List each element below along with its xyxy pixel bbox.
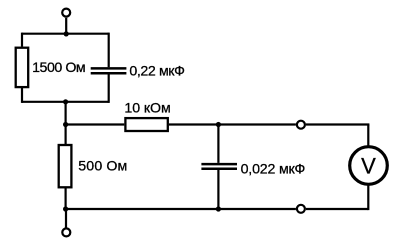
wire mid rail segment 2 xyxy=(169,123,296,125)
svg-text:0,022 мкФ: 0,022 мкФ xyxy=(241,162,306,178)
wire left branch upper xyxy=(21,33,23,47)
terminal T4 (output bottom) xyxy=(297,205,305,213)
wire bottom rail segment 2 xyxy=(306,208,368,210)
terminal T2 (bottom input) xyxy=(62,228,70,236)
wire bottom rail segment 1 xyxy=(66,208,296,210)
voltmeter U1 xyxy=(350,147,388,185)
wire right drop to voltmeter xyxy=(367,125,369,147)
node junction mid-left xyxy=(63,122,68,127)
wire bottom-left node to T2 xyxy=(65,209,67,228)
wire mid rail segment 1 xyxy=(66,123,125,125)
resistor R1 1500 Ом xyxy=(16,48,29,87)
node junction mid-cap xyxy=(216,122,221,127)
wire mid rail segment 3 xyxy=(306,123,369,125)
terminal T1 (top input) xyxy=(62,9,70,17)
wire cap branch lower xyxy=(217,170,219,209)
wire loop bottom rail xyxy=(22,101,109,103)
capacitor C2 0,022 мкФ plates xyxy=(201,163,237,166)
svg-text:0,22 мкФ: 0,22 мкФ xyxy=(129,63,184,79)
node junction bottom-left xyxy=(63,206,68,211)
node junction bottom-cap xyxy=(216,206,221,211)
svg-text:500 Ом: 500 Ом xyxy=(78,158,127,174)
wire T1 to top rail xyxy=(65,18,67,34)
node junction top xyxy=(64,31,69,36)
wire left branch lower xyxy=(21,87,23,103)
wire R3 to bottom rail xyxy=(64,187,66,209)
resistor R2 10 кОм xyxy=(125,118,167,131)
capacitor C1 0,22 мкФ plates xyxy=(91,67,127,70)
wire cap branch upper xyxy=(217,125,219,163)
terminal T3 (output top) xyxy=(297,121,305,129)
svg-text:10 кОм: 10 кОм xyxy=(124,101,170,117)
wire loop bottom to mid node xyxy=(64,102,66,125)
wire top rail xyxy=(22,33,109,35)
wire right branch upper xyxy=(108,33,110,68)
node junction loop bottom xyxy=(63,99,68,104)
svg-text:1500 Ом: 1500 Ом xyxy=(32,60,85,76)
wire mid node down to R3 xyxy=(64,125,66,145)
wire right branch lower xyxy=(108,74,110,103)
wire voltmeter to bottom rail xyxy=(367,185,369,211)
svg-text:V: V xyxy=(361,154,376,179)
resistor R3 500 Ом xyxy=(59,145,72,187)
